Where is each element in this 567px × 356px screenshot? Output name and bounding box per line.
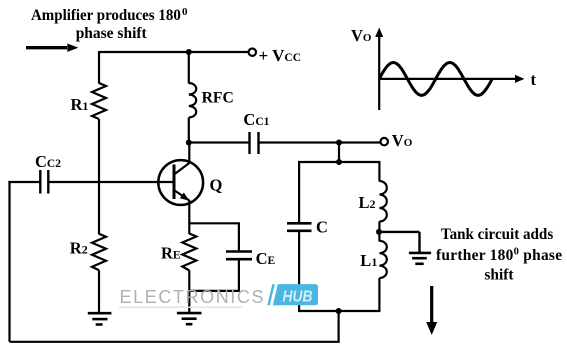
- title text: Amplifier produces 180 phase shift: [31, 6, 188, 42]
- svg-text:R2: R2: [70, 239, 88, 258]
- wire: L1 to tank bottom: [378, 278, 380, 312]
- capacitor CC2: [40, 170, 48, 194]
- svg-text:shift: shift: [484, 267, 514, 284]
- svg-text:L2: L2: [359, 193, 376, 212]
- wire: tank left upper: [298, 162, 300, 223]
- waveform horizontal axis: [379, 75, 524, 83]
- svg-text:t: t: [531, 70, 537, 89]
- watermark underline: [119, 307, 243, 309]
- waveform vertical axis: [375, 28, 383, 111]
- wire: tank right upper: [378, 162, 380, 182]
- wire: collector to CC1: [189, 141, 250, 143]
- svg-text:L1: L1: [360, 251, 377, 270]
- node: tank top junction: [336, 159, 342, 165]
- watermark HUB box: [273, 284, 318, 305]
- wire: CE branch: [238, 222, 240, 292]
- node: output junction: [336, 140, 342, 146]
- ground tap: [409, 253, 431, 264]
- wire: emitter top link to CE: [189, 222, 239, 224]
- node: tap junction: [376, 229, 382, 235]
- resistor RE: [182, 234, 196, 271]
- input arrow: [26, 44, 78, 52]
- inductor L2: [379, 181, 386, 222]
- node: collector junction: [186, 140, 192, 146]
- wire: RFC branch top: [188, 52, 190, 84]
- wire: junction down to tank top: [338, 143, 340, 163]
- waveform sine: [379, 62, 492, 95]
- watermark slash: [267, 284, 275, 305]
- wire: RE stubs: [188, 222, 190, 313]
- svg-text:phase shift: phase shift: [76, 25, 148, 42]
- svg-text:Tank circuit adds: Tank circuit adds: [441, 226, 553, 243]
- wire: R1 branch top: [98, 51, 100, 84]
- wire: tank top: [298, 161, 381, 163]
- transistor Q1 emitter lead: [174, 190, 189, 223]
- wire: base wire right: [48, 181, 173, 183]
- inductor L1: [379, 241, 386, 278]
- wire: bottom feedback run: [10, 341, 340, 343]
- wire: RE CE bottom link: [189, 290, 239, 292]
- wire: R2 branch top: [98, 182, 100, 234]
- wire: CC1 to VO terminal: [259, 141, 381, 143]
- wire: tank left lower: [298, 231, 300, 312]
- capacitor CC1: [250, 132, 259, 154]
- svg-text:0: 0: [182, 6, 188, 18]
- transistor Q1 base bar: [173, 165, 176, 200]
- svg-text:+ VCC: + VCC: [259, 46, 302, 65]
- VO terminal circle: [381, 138, 388, 145]
- wire: RFC to collector node: [188, 118, 190, 143]
- tank annotation text: [436, 226, 562, 284]
- svg-text:CC1: CC1: [243, 110, 269, 129]
- wire: top VCC rail: [99, 51, 249, 53]
- resistor R1: [92, 83, 106, 119]
- svg-text:CE: CE: [256, 249, 276, 268]
- wire: feedback drop: [338, 311, 340, 342]
- wire: R1 to base node: [98, 119, 100, 183]
- capacitor CE: [226, 252, 252, 260]
- capacitor C: [287, 223, 312, 231]
- wire: tap to ground stub: [379, 232, 420, 253]
- wire: base wire left: [8, 181, 40, 183]
- wire: L2 to tap: [378, 222, 380, 242]
- svg-text:ELECTRONICS: ELECTRONICS: [120, 287, 264, 307]
- svg-text:RFC: RFC: [202, 90, 234, 107]
- ground R2: [88, 313, 112, 324]
- svg-text:VO: VO: [351, 26, 372, 45]
- svg-text:Q: Q: [210, 176, 223, 195]
- transistor Q1 circle: [158, 160, 203, 205]
- svg-text:R1: R1: [71, 95, 89, 114]
- wire: left feedback riser: [8, 181, 10, 342]
- node: rail junction: [186, 49, 192, 55]
- inductor RFC: [189, 83, 196, 118]
- transistor Q1 collector lead: [174, 143, 189, 175]
- ground RE: [177, 313, 202, 324]
- svg-text:further 1800 phase: further 1800 phase: [436, 247, 562, 265]
- svg-text:RE: RE: [161, 244, 181, 263]
- svg-text:HUB: HUB: [283, 289, 313, 306]
- resistor R2: [92, 234, 106, 270]
- wire: R2 to ground: [98, 270, 100, 313]
- svg-text:CC2: CC2: [35, 152, 61, 171]
- node: feedback junction: [336, 308, 342, 314]
- svg-text:Amplifier produces 180: Amplifier produces 180: [31, 7, 181, 24]
- VCC terminal circle: [249, 49, 256, 56]
- svg-text:VO: VO: [392, 131, 413, 150]
- svg-text:C: C: [316, 217, 328, 236]
- output arrow down: [426, 286, 437, 335]
- wire: tank bottom: [298, 310, 381, 312]
